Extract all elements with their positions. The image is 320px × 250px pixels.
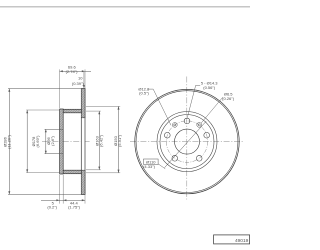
lug hole lower-left	[172, 155, 178, 161]
center bore	[175, 129, 200, 154]
svg-text:(2.74"): (2.74")	[66, 69, 79, 74]
mounting flange section	[60, 109, 64, 174]
svg-text:(1.75"): (1.75")	[68, 205, 81, 210]
hat bottom wall section	[60, 170, 81, 174]
svg-text:(2.6"): (2.6")	[50, 136, 55, 146]
svg-text:(0.56"): (0.56")	[203, 85, 216, 90]
svg-text:10: 10	[78, 75, 83, 80]
dim Ø286 line	[8, 89, 10, 195]
leader Ø12.8	[149, 89, 172, 125]
label Ø110 box	[144, 159, 159, 164]
svg-text:(0.5"): (0.5")	[139, 91, 149, 96]
hat outer circle	[157, 112, 217, 172]
bolt circle diameter line	[164, 121, 206, 168]
part number box	[214, 235, 250, 244]
bottom dim extension lines	[59, 175, 61, 204]
screw hole right (double)	[197, 123, 202, 128]
outer circle	[135, 89, 239, 193]
svg-text:(11.26"): (11.26")	[6, 134, 11, 148]
svg-text:(4.33"): (4.33")	[143, 164, 156, 169]
rim inner circle	[136, 91, 238, 193]
svg-text:49019: 49019	[235, 238, 249, 244]
leader Ø6.5	[201, 97, 223, 123]
friction disc hatched outer band bottom	[81, 170, 85, 194]
leader Ø110	[158, 164, 165, 169]
lug hole top	[184, 118, 190, 124]
lug hole upper-right	[204, 132, 210, 138]
dim Ø66 bore line	[45, 129, 47, 153]
top dim 69.6 extension lines	[59, 69, 61, 108]
friction disc section outline	[81, 89, 85, 195]
lug hole upper-left	[164, 132, 170, 138]
friction disc hatched outer band top	[81, 89, 85, 118]
dim Ø163 line	[98, 111, 100, 170]
vertical centerline	[186, 77, 188, 200]
dim Ø190 line	[118, 106, 120, 172]
svg-text:(5.91"): (5.91")	[117, 134, 122, 147]
svg-text:(6.69"): (6.69")	[35, 135, 40, 148]
hat top wall section	[60, 109, 81, 113]
centerline axis	[42, 141, 91, 143]
horizontal centerline	[130, 141, 244, 143]
leader 5-Ø14.3	[187, 85, 200, 117]
svg-text:(0.26"): (0.26")	[222, 96, 235, 101]
bolt circle dashed	[166, 121, 207, 162]
top dim line 69.6	[60, 70, 85, 72]
svg-text:(6.42"): (6.42")	[99, 134, 104, 147]
svg-text:(0.39"): (0.39")	[72, 81, 85, 86]
OD extension line bottom	[8, 193, 85, 195]
dim Ø170 line	[26, 110, 28, 173]
hat inner circle	[160, 115, 214, 169]
screw hole left (double)	[172, 123, 177, 128]
OD extension line top	[8, 88, 85, 90]
bottom dim line	[41, 199, 85, 201]
svg-text:(0.2"): (0.2")	[47, 205, 57, 210]
top rule	[0, 6, 250, 8]
bore edge lines	[45, 128, 64, 130]
lug hole lower-right	[196, 155, 202, 161]
